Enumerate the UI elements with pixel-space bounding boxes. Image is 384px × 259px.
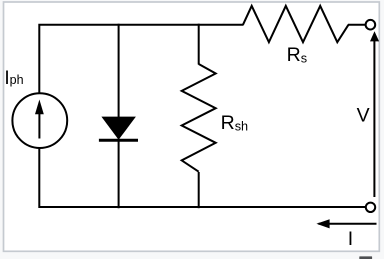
diode D1 <box>99 117 138 141</box>
wire: left branch lower + bottom bus <box>39 148 366 207</box>
current arrow I <box>316 219 376 228</box>
terminal negative (bottom right) <box>366 203 375 212</box>
svg-text:V: V <box>357 105 370 127</box>
resistor Rsh <box>182 64 216 172</box>
wire: diode branch top <box>118 24 120 118</box>
wire: diode branch bottom <box>118 140 120 208</box>
wire: Rsh branch top <box>198 24 200 65</box>
wire: Rsh branch bottom <box>198 172 200 208</box>
current source Iph <box>12 93 67 148</box>
svg-text:I: I <box>348 228 353 250</box>
ui resize handle (clipped at bottom edge) <box>359 256 372 259</box>
voltage arrow V <box>370 31 379 197</box>
wire: Rs output to positive terminal <box>348 24 366 26</box>
wire: left branch upper + top bus <box>39 25 243 94</box>
resistor Rs <box>243 6 349 42</box>
terminal positive (top right) <box>366 20 376 30</box>
